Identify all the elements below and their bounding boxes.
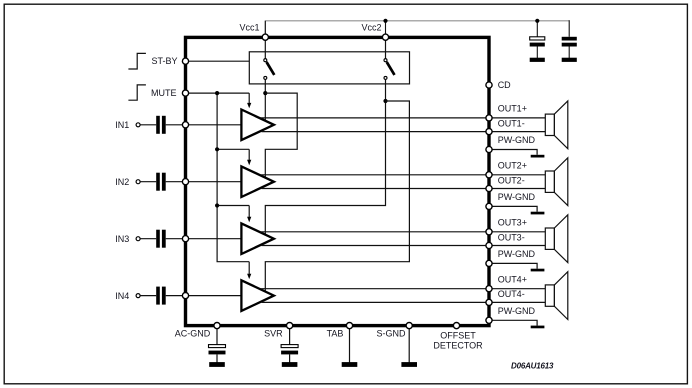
pin PW-GND1 xyxy=(486,146,492,152)
pin OUT1- xyxy=(486,129,492,135)
svg-text:IN1: IN1 xyxy=(115,120,129,130)
svg-text:DETECTOR: DETECTOR xyxy=(433,341,483,351)
pin PW-GND2 xyxy=(486,203,492,209)
ground PW-GND1 xyxy=(531,155,545,158)
node rail-C1 junction xyxy=(535,19,539,23)
wire SVR to cap xyxy=(289,327,291,345)
pin ST-BY xyxy=(182,58,188,64)
node IN3 source terminal xyxy=(136,237,140,241)
speaker LS1 xyxy=(545,101,568,149)
pin Vcc1 xyxy=(262,34,268,40)
svg-text:OUT4-: OUT4- xyxy=(498,289,525,299)
speaker LS4 xyxy=(545,272,568,320)
pin IN3 xyxy=(182,236,188,242)
wire pin IN1 to amp1 xyxy=(186,124,242,126)
pin TAB bottom xyxy=(346,323,352,329)
node IN4 source terminal xyxy=(136,294,140,298)
op-amp amp2 xyxy=(241,166,274,197)
ground C2 xyxy=(562,58,577,62)
wire OUT4+ xyxy=(260,288,545,290)
wire enable arrow into amp4 xyxy=(248,262,250,275)
wire cap to pin IN1 xyxy=(166,124,186,126)
svg-text:OUT4+: OUT4+ xyxy=(498,274,527,284)
ground PW-GND4 xyxy=(531,326,545,329)
svg-text:IN4: IN4 xyxy=(115,291,129,301)
wire AC-GND to cap xyxy=(216,327,218,345)
pin OUT4+ xyxy=(486,286,492,292)
waveform symbol MUTE xyxy=(128,85,146,100)
pin PW-GND4 xyxy=(486,317,492,323)
node rail-Vcc2 junction xyxy=(383,19,387,23)
wire IN1 to cap xyxy=(140,124,156,126)
wire OUT3+ xyxy=(260,231,545,233)
wire bias amp1 xyxy=(264,93,266,121)
wire OUT1- xyxy=(262,131,546,133)
op-amp amp4 xyxy=(241,280,274,311)
svg-text:OFFSET: OFFSET xyxy=(440,331,476,341)
wire bias amp3 xyxy=(265,101,385,235)
wire SW2 output xyxy=(385,79,387,101)
wire enable arrow into amp3 xyxy=(248,206,250,218)
wire enable arrow into amp1 xyxy=(248,93,250,104)
pin OUT3+ xyxy=(486,229,492,235)
pin OUT1+ xyxy=(486,115,492,121)
waveform symbol ST-BY xyxy=(128,53,146,69)
wire PW-GND1 xyxy=(489,150,537,155)
ground C1 xyxy=(530,58,545,62)
wire C2 tap xyxy=(568,20,570,37)
wire Vcc supply rail xyxy=(265,21,569,37)
wire cap to pin IN3 xyxy=(166,238,186,240)
svg-text:OUT3+: OUT3+ xyxy=(498,218,527,228)
pin OUT4- xyxy=(486,299,492,305)
svg-text:PW-GND: PW-GND xyxy=(498,306,536,316)
pin IN4 xyxy=(182,293,188,299)
wire SW1 output xyxy=(264,79,266,93)
ground S-GND xyxy=(401,362,417,367)
wire Vcc1 into switch xyxy=(264,37,266,59)
pin OUT3- xyxy=(486,242,492,248)
svg-text:OUT2-: OUT2- xyxy=(498,175,525,185)
node SW2 output junction xyxy=(383,99,387,103)
wire MUTE xyxy=(186,92,250,94)
op-amp amp1 xyxy=(241,110,274,141)
wire IN3 to cap xyxy=(140,238,156,240)
node mute bus tap 1 xyxy=(215,91,219,95)
pin IN2 xyxy=(182,179,188,185)
node SW1 output junction xyxy=(263,91,267,95)
svg-text:SVR: SVR xyxy=(264,328,283,338)
pin OUT2- xyxy=(486,185,492,191)
node IN1 source terminal xyxy=(136,123,140,127)
switch SW2 xyxy=(384,59,395,80)
wire C1 tap xyxy=(536,21,538,37)
wire PW-GND2 xyxy=(489,206,537,211)
svg-text:PW-GND: PW-GND xyxy=(498,192,536,202)
svg-text:OUT1+: OUT1+ xyxy=(498,104,527,114)
wire pin IN4 to amp4 xyxy=(186,295,242,297)
svg-text:PW-GND: PW-GND xyxy=(498,135,536,145)
svg-text:CD: CD xyxy=(498,80,511,90)
wire mute feed amp3 xyxy=(217,205,249,207)
wire IN4 to cap xyxy=(140,295,156,297)
wire pin IN3 to amp3 xyxy=(186,238,242,240)
svg-text:ST-BY: ST-BY xyxy=(151,56,177,66)
capacitor AC-GND (polarized) xyxy=(209,345,226,363)
svg-text:OUT2+: OUT2+ xyxy=(498,161,527,171)
node IN2 source terminal xyxy=(136,180,140,184)
pin AC-GND bottom xyxy=(214,323,220,329)
IC block U1 outline xyxy=(186,37,490,325)
op-amp amp3 xyxy=(241,223,274,254)
svg-text:Vcc2: Vcc2 xyxy=(361,23,381,33)
svg-text:D06AU1613: D06AU1613 xyxy=(511,362,554,371)
node mute bus tap 2 xyxy=(215,147,219,151)
wire IN2 to cap xyxy=(140,181,156,183)
wire Vcc2 into switch xyxy=(385,37,387,59)
capacitor input C-IN3 xyxy=(156,230,166,248)
wire OUT2- xyxy=(262,188,546,190)
capacitor C1 (polarized) xyxy=(530,37,545,58)
wire bias amp2 xyxy=(265,93,297,178)
capacitor input C-IN2 xyxy=(156,173,166,191)
wire PW-GND3 xyxy=(489,263,537,268)
svg-text:PW-GND: PW-GND xyxy=(498,249,536,259)
capacitor SVR (polarized) xyxy=(281,345,298,363)
pin S-GND bottom xyxy=(406,323,412,329)
svg-text:IN2: IN2 xyxy=(115,177,129,187)
capacitor input C-IN1 xyxy=(156,116,166,134)
wire bias amp4 xyxy=(265,101,409,292)
capacitor C2 xyxy=(562,37,577,58)
speaker LS3 xyxy=(545,215,568,263)
ground TAB xyxy=(342,362,358,367)
wire cap to pin IN4 xyxy=(166,295,186,297)
pin SVR bottom xyxy=(287,323,293,329)
wire mute feed amp2 xyxy=(217,148,249,150)
pin OUT2+ xyxy=(486,172,492,178)
switch control box xyxy=(249,52,409,84)
node mute bus tap 3 xyxy=(215,203,219,207)
switch SW1 xyxy=(264,59,275,80)
ground SVR xyxy=(282,362,298,367)
pin Vcc2 xyxy=(382,34,388,40)
svg-text:Vcc1: Vcc1 xyxy=(239,23,259,33)
wire S-GND to ground xyxy=(408,327,410,363)
pin OFFSET DETECTOR bottom xyxy=(453,323,459,329)
svg-text:OUT3-: OUT3- xyxy=(498,232,525,242)
svg-text:S-GND: S-GND xyxy=(377,328,407,338)
svg-text:IN3: IN3 xyxy=(115,234,129,244)
wire PW-GND4 xyxy=(489,320,537,325)
ground AC-GND xyxy=(209,362,225,367)
wire cap to pin IN2 xyxy=(166,181,186,183)
svg-text:OUT1-: OUT1- xyxy=(498,118,525,128)
wire mute bus vertical xyxy=(217,93,249,262)
speaker LS2 xyxy=(545,158,568,206)
wire enable arrow into amp2 xyxy=(248,149,250,160)
pin PW-GND3 xyxy=(486,260,492,266)
wire ST-BY xyxy=(186,60,250,62)
capacitor input C-IN4 xyxy=(156,287,166,305)
wire TAB to ground xyxy=(349,327,351,363)
wire OUT4- xyxy=(262,301,546,303)
svg-text:AC-GND: AC-GND xyxy=(175,328,211,338)
wire OUT3- xyxy=(262,245,546,247)
wire OUT2+ xyxy=(260,174,545,176)
pin IN1 xyxy=(182,122,188,128)
svg-text:TAB: TAB xyxy=(327,328,344,338)
wire OUT1+ xyxy=(260,117,545,119)
svg-text:MUTE: MUTE xyxy=(151,88,177,98)
ground PW-GND2 xyxy=(531,212,545,215)
wire pin IN2 to amp2 xyxy=(186,181,242,183)
wire Vcc2 tap xyxy=(385,21,387,37)
ground PW-GND3 xyxy=(531,269,545,272)
pin MUTE xyxy=(182,90,188,96)
pin CD xyxy=(486,82,492,88)
